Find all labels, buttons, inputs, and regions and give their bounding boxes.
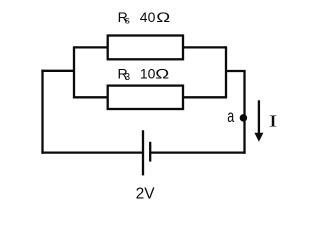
svg-text:40: 40 (140, 9, 156, 25)
svg-text:I: I (269, 111, 278, 130)
svg-text:3: 3 (125, 72, 131, 83)
svg-text:Ω: Ω (155, 66, 169, 81)
svg-text:Ω: Ω (156, 10, 170, 25)
svg-text:10: 10 (140, 65, 156, 81)
svg-text:s: s (125, 16, 130, 27)
svg-text:2V: 2V (136, 186, 156, 203)
svg-text:a: a (227, 107, 234, 126)
